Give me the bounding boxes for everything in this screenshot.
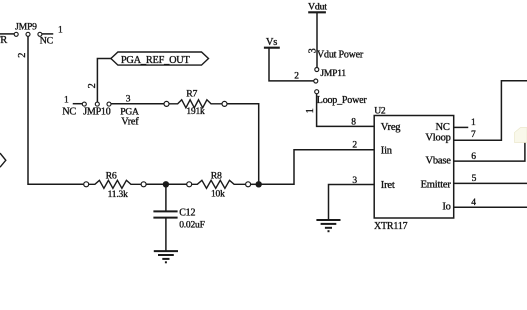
jumper JMP10 pins [82,102,111,106]
wire R8 right to junction [251,183,259,185]
wire C12 top stem [165,184,167,210]
svg-text:11.3k: 11.3k [108,190,128,200]
svg-text:1: 1 [471,118,476,128]
svg-text:TR: TR [0,35,7,46]
wire rail between R6 and R8 [147,183,187,185]
svg-text:JMP11: JMP11 [320,69,346,79]
wire JMP10 left pin stub [74,103,82,105]
svg-text:191k: 191k [186,107,205,117]
svg-text:Vreg: Vreg [381,122,402,133]
svg-text:8: 8 [351,118,356,128]
wire JMP10 pin3 to R7 [111,103,163,105]
wire Vs stem and corner to JMP11 pin2 [269,49,313,81]
svg-text:6: 6 [471,152,476,162]
svg-text:Vbase: Vbase [425,155,451,166]
wire pin5 Emitter off right edge [454,182,527,184]
svg-text:4: 4 [471,198,476,208]
svg-text:3: 3 [126,95,131,105]
wire Iret pin3 to ground stem [329,185,375,220]
svg-text:Iin: Iin [381,146,393,157]
port PGA_REF_OUT [111,52,209,65]
svg-text:1: 1 [58,25,63,35]
svg-text:NC: NC [40,35,53,46]
svg-text:1: 1 [64,96,69,106]
svg-text:Vref: Vref [121,116,139,127]
wire pin6 Vbase right riser [454,137,525,161]
svg-text:U2: U2 [374,107,386,117]
wire R7 right corner down to junction [228,104,259,185]
junction dot at C12 tap [163,181,169,187]
svg-text:2: 2 [17,53,28,58]
svg-text:0.02uF: 0.02uF [179,221,204,231]
svg-text:Vs: Vs [266,37,277,48]
svg-text:Vloop: Vloop [425,133,450,144]
resistor R8 [192,180,245,188]
svg-text:Emitter: Emitter [421,180,452,191]
port tip at left edge [0,153,6,167]
wire JMP10 pin2 up to PGA_REF_OUT port [97,59,111,102]
svg-text:XTR117: XTR117 [374,221,408,232]
svg-text:2: 2 [294,71,299,81]
wire pin7 Vloop up and off right edge [454,81,527,140]
svg-text:JMP10: JMP10 [83,107,111,118]
svg-text:Vdut: Vdut [308,2,327,13]
svg-text:1: 1 [305,108,316,113]
svg-text:JMP9: JMP9 [15,21,37,32]
wire C12 bottom stem to ground [165,219,167,251]
wire JMP9 right pin stub [43,33,53,35]
svg-text:5: 5 [472,174,477,184]
wire JMP9 pin2 down to rail corner [28,37,83,184]
jumper JMP11 pins [314,68,319,94]
power symbol Vdut [308,11,326,13]
svg-text:Iret: Iret [381,180,395,191]
svg-text:10k: 10k [211,190,225,200]
svg-text:Io: Io [442,202,450,213]
svg-text:NC: NC [62,106,76,117]
power symbol Vs [264,47,280,49]
wire JMP11 pin1 down then right to Vreg pin8 [317,94,375,126]
svg-text:7: 7 [471,130,476,140]
pin 1 NC stub [454,126,468,128]
junction dot at R8 right / R7 riser [256,181,262,187]
svg-text:Loop_Power: Loop_Power [317,95,368,106]
resistor R7 [169,100,222,108]
svg-text:R7: R7 [186,88,197,99]
svg-text:Vdut Power: Vdut Power [317,49,364,60]
wire pin4 Io off right edge [454,206,527,208]
svg-text:2: 2 [87,83,98,88]
capacitor C12 [153,211,177,217]
wire TR to JMP9 left pin [0,33,14,35]
ground symbol at Iret [316,220,340,231]
svg-text:R8: R8 [211,170,222,181]
svg-text:R6: R6 [106,170,117,181]
svg-text:C12: C12 [179,208,195,219]
svg-text:2: 2 [352,141,357,151]
op IC U2 XTR117 body [374,116,454,219]
ground symbol below C12 [154,251,178,262]
jumper JMP9 pins [14,32,42,36]
svg-text:3: 3 [352,176,357,186]
svg-text:PGA_REF_OUT: PGA_REF_OUT [121,55,191,66]
svg-text:NC: NC [436,122,450,133]
wire Vdut stem to JMP11 pin3 [316,14,318,68]
wire junction to Iin pin 2 [259,150,375,185]
resistor R6 [89,180,141,188]
off-page port corner at right edge [515,128,527,143]
